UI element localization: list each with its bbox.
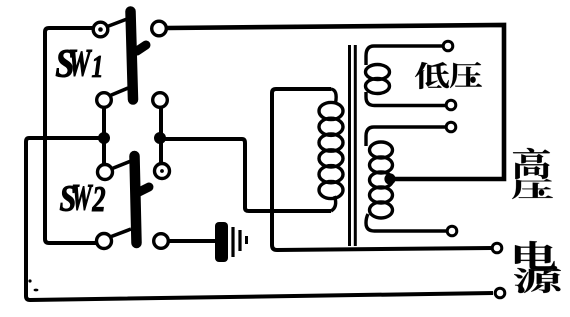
switch SW2 blade link upper — [111, 161, 131, 169]
wire: node bus right segment down to transformer primary bottom lead — [162, 139, 331, 211]
switch SW2 lower-right contact — [154, 234, 169, 249]
label power-source char 2 (源) — [514, 268, 561, 293]
switch SW2 lower-left contact — [97, 234, 112, 249]
terminal: LV output 1 — [443, 41, 453, 51]
wire: primary top lead, left side down, to power terminal 1 — [272, 89, 492, 250]
switch SW2 blade link lower — [110, 229, 131, 237]
wire: SW1 lower-right to SW2 upper-right interconnect — [159, 103, 163, 167]
switch SW2 upper-right contact (pivot) — [155, 164, 170, 179]
switch SW2 blade — [135, 156, 137, 243]
transformer secondary high-voltage winding S2 — [366, 127, 447, 231]
capacitor plate line 3 — [238, 230, 241, 251]
wire: top bus from SW1 right contact, down right side to HV center tap — [167, 25, 504, 179]
wire: SW2 lower-right contact to capacitor — [168, 239, 215, 243]
transformer core — [350, 45, 356, 246]
label SW2 — [60, 185, 105, 211]
switch SW1 blade link lower — [109, 88, 128, 96]
switch SW2 upper-left contact — [98, 165, 113, 180]
label high-voltage char 1 (高) — [513, 148, 550, 179]
wire: SW1 upper-left contact to left vertical riser down to SW2 lower-left contact — [45, 28, 96, 243]
wire: node bus left segment, down left edge, bottom return to power terminal — [26, 138, 493, 300]
switch SW1 blade — [131, 12, 134, 100]
capacitor plate line 2 — [231, 227, 234, 257]
transformer secondary low-voltage winding S1 — [366, 46, 447, 106]
node junction dot right — [154, 132, 166, 144]
label SW1 — [56, 50, 101, 77]
terminal: power input 1 — [492, 243, 502, 253]
switch SW1 blade link upper — [106, 19, 127, 27]
terminal: HV output 2 — [447, 226, 457, 236]
transformer primary winding P1 — [319, 89, 343, 211]
terminal: HV output 1 — [446, 122, 456, 132]
wire: SW1 lower-left to SW2 upper-left interconnect — [102, 103, 106, 168]
switch SW2 handle — [139, 187, 149, 192]
switch SW1 lower-left contact — [97, 93, 112, 108]
terminal: LV output 2 — [446, 100, 456, 110]
node junction dot left — [98, 132, 110, 144]
switch SW1 handle — [137, 45, 146, 51]
label low-voltage char 1 (低) — [415, 62, 449, 89]
switch SW1 pivot terminal (upper-left) — [93, 22, 108, 37]
capacitor plate (thick) — [215, 222, 228, 262]
label low-voltage char 2 (压) — [450, 62, 482, 88]
switch SW1 upper-right contact — [152, 21, 167, 36]
node: HV winding center tap — [384, 173, 395, 184]
switch SW1 lower-right contact — [153, 93, 168, 108]
capacitor tick mark — [245, 236, 248, 244]
label power-source char 1 (电) — [515, 241, 557, 270]
terminal: power input 2 — [495, 288, 505, 298]
label high-voltage char 2 (压) — [512, 179, 553, 199]
